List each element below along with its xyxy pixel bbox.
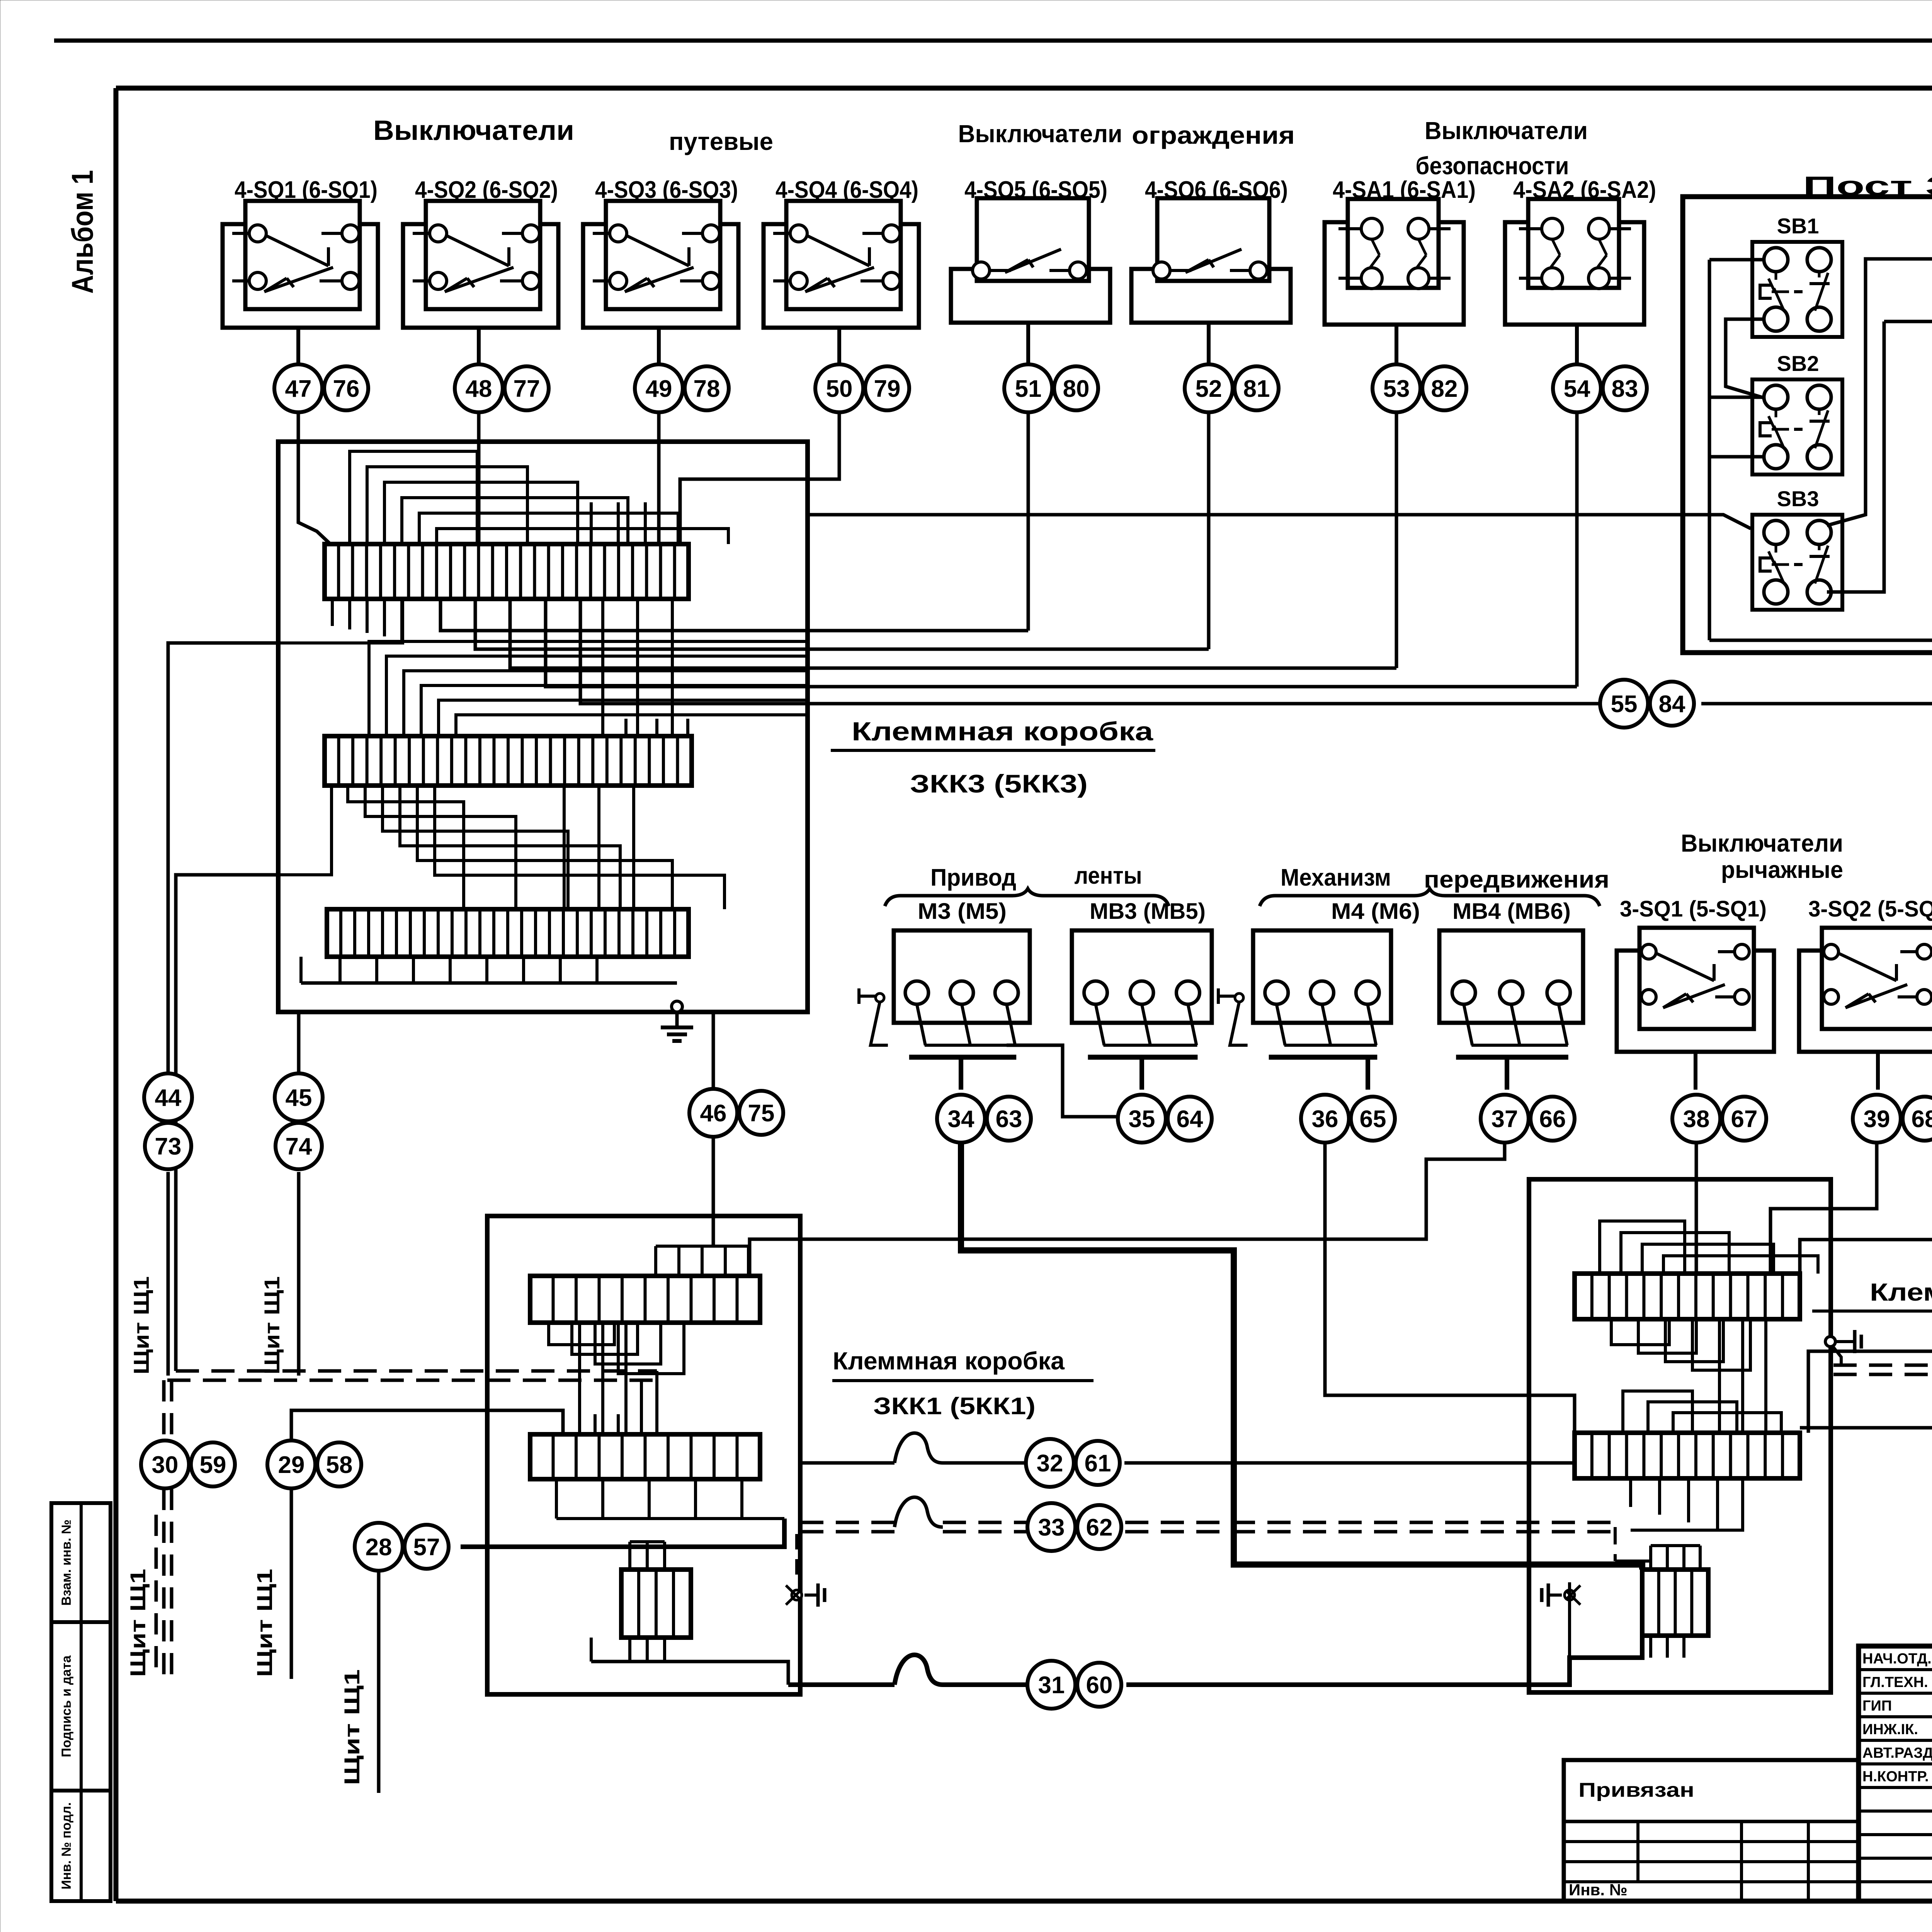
wire stem 4-SQ6 [1207, 323, 1211, 364]
signature names [1862, 1651, 1932, 1785]
svg-text:37: 37 [1492, 1106, 1518, 1133]
title block frame [1859, 1646, 1932, 1901]
wire stubs below ЗКК1 row C to bus [628, 1638, 631, 1662]
wire links between ЗКК2 rows D and E [1718, 1319, 1721, 1433]
node circle 73 [145, 1123, 191, 1169]
node circle 49 [635, 364, 683, 412]
node circle 54 [1553, 364, 1601, 412]
motor leads МВ4 [1464, 1004, 1472, 1045]
svg-text:Привод: Привод [930, 864, 1016, 891]
wire below node 73 to Щит Щ1 [167, 1172, 170, 1376]
wire to node 44 from ЗКК3 left edge [168, 643, 278, 1072]
svg-text:Выключатели: Выключатели [958, 120, 1122, 148]
svg-text:МВ3 (МВ5): МВ3 (МВ5) [1090, 899, 1206, 924]
wire ground bus of ЗКК3 [301, 981, 677, 985]
node circle 84 [1650, 682, 1694, 726]
node circle 35 [1118, 1095, 1166, 1143]
wire from node 38 into ЗКК2 row D [1695, 1144, 1698, 1274]
wire stem 4-SQ5 [1026, 323, 1030, 364]
motor leads М3 [917, 1004, 925, 1045]
svg-text:44: 44 [155, 1085, 182, 1111]
margin stamp Взам. инв. № [51, 1503, 111, 1622]
svg-text:Инв. № подл.: Инв. № подл. [59, 1802, 74, 1889]
node circle 39 [1853, 1095, 1901, 1143]
safety switch 4-SA2 [1505, 222, 1644, 325]
node circle 83 [1603, 366, 1647, 410]
wire SA bottom-left lead [1884, 320, 1932, 323]
lever switch 3-SQ1 [1617, 951, 1774, 1052]
node circle 61 [1076, 1441, 1120, 1485]
wire stubs above ЗКК1 row C [628, 1542, 631, 1570]
wire left bus of ЗПУ [1708, 260, 1711, 640]
node circle 74 [276, 1123, 322, 1169]
svg-text:АВТ.РАЗД.: АВТ.РАЗД. [1862, 1745, 1932, 1761]
svg-text:ГЛ.ТЕХН.: ГЛ.ТЕХН. [1862, 1674, 1928, 1690]
wire stem 3-SQ1 [1694, 1052, 1697, 1090]
wire ЗКК3 top feed to SB3 of ЗПУ [808, 442, 1751, 529]
dashed cable below node 30 Щит Щ1 [155, 1515, 158, 1679]
svg-text:51: 51 [1015, 376, 1042, 402]
brace under Механизм передвижения [1260, 889, 1600, 906]
svg-text:передвижения: передвижения [1424, 866, 1609, 893]
svg-text:ЗКК3 (5КК3): ЗКК3 (5КК3) [910, 769, 1088, 798]
node circle 37 [1481, 1095, 1529, 1143]
svg-text:57: 57 [413, 1534, 440, 1561]
svg-text:Привязан: Привязан [1578, 1779, 1694, 1801]
wire stem 3-SQ2 [1876, 1052, 1880, 1090]
wire bottom bus of ЗПУ [1709, 639, 1932, 642]
svg-text:ограждения: ограждения [1132, 121, 1295, 149]
svg-text:МВ4 (МВ6): МВ4 (МВ6) [1452, 899, 1571, 924]
svg-text:73: 73 [155, 1133, 182, 1160]
wire stubs above ЗКК1 row A [654, 1246, 657, 1276]
svg-text:28: 28 [366, 1534, 392, 1561]
wire bus below ЗКК1 row B [555, 1479, 558, 1519]
node circle 55 [1600, 680, 1648, 728]
motor М4 [1253, 930, 1391, 1023]
terminal strip ЗКК2 row D [1575, 1274, 1800, 1319]
svg-text:49: 49 [646, 376, 672, 402]
wire from node 54 down to cross run [1575, 412, 1579, 687]
svg-text:50: 50 [826, 376, 853, 402]
svg-text:53: 53 [1383, 376, 1410, 402]
terminal strip ЗКК1 row C [621, 1570, 691, 1638]
node circle 36 [1301, 1095, 1349, 1143]
svg-text:Подпись и дата: Подпись и дата [59, 1655, 74, 1757]
wire stem 4-SQ1 [296, 328, 300, 364]
node circle 57 [405, 1525, 449, 1569]
chassis ground at ЗКК2 [1825, 1337, 1835, 1347]
wire SB1 top-left to bus [1709, 258, 1765, 262]
terminal clamp of М4 [1217, 988, 1220, 1004]
svg-text:32: 32 [1037, 1450, 1063, 1477]
limit switch 4-SQ1 [223, 224, 378, 328]
terminal clamp of М3 [857, 988, 861, 1004]
node circle 79 [865, 366, 909, 410]
terminal strip ЗКК3 row 2 [325, 736, 692, 786]
svg-text:Клеммная коробка: Клеммная коробка [833, 1347, 1065, 1375]
wire М3 bus to node 35 [1007, 1045, 1117, 1117]
node circle 66 [1531, 1097, 1575, 1141]
wire run to node 51 [440, 599, 1028, 631]
chassis ground elbow at ЗКК2 [1832, 1346, 1841, 1365]
wire from node 53 down to cross run [1395, 412, 1398, 668]
svg-text:63: 63 [996, 1106, 1022, 1133]
svg-text:80: 80 [1063, 376, 1090, 402]
wire bottom bus ЗКК1 to output 31 [591, 1662, 788, 1685]
leader line ЗКК2 label [1812, 1310, 1870, 1313]
wire bundle below ЗКК2 row E [1629, 1478, 1632, 1507]
svg-text:безопасности: безопасности [1416, 152, 1569, 180]
svg-text:34: 34 [948, 1106, 975, 1133]
margin stamp Подпись и дата [51, 1622, 111, 1791]
svg-text:81: 81 [1243, 376, 1270, 402]
wire from node 37 into ЗКК1 row A [750, 1144, 1505, 1276]
node circle 45 [275, 1073, 323, 1121]
node circle 28 [355, 1523, 403, 1571]
safety switch 4-SA1 [1325, 222, 1464, 325]
node circle 63 [987, 1097, 1031, 1141]
thick cable М3 to ЗКК2 row C [961, 1144, 1642, 1570]
wire from node 49 down to ЗКК3 [657, 412, 661, 544]
wire stem 4-SQ4 [837, 328, 841, 364]
lever switch 3-SQ2 [1799, 951, 1932, 1052]
svg-text:ленты: ленты [1075, 862, 1142, 889]
svg-text:ГИП: ГИП [1862, 1698, 1892, 1714]
svg-text:ИНЖ.IК.: ИНЖ.IК. [1862, 1721, 1918, 1738]
node circle 58 [317, 1442, 361, 1486]
node circle 80 [1054, 366, 1098, 410]
svg-text:SB3: SB3 [1777, 486, 1819, 511]
wire stubs row 2 [624, 719, 628, 736]
node circle 47 [274, 364, 322, 412]
svg-text:Щит Щ1: Щит Щ1 [126, 1569, 150, 1677]
svg-text:НАЧ.ОТД.: НАЧ.ОТД. [1862, 1651, 1932, 1667]
wire run 55-84 to ЗПУ ground bus [580, 599, 1600, 704]
wire stem 4-SQ3 [657, 328, 661, 364]
node circle 75 [739, 1091, 783, 1135]
wire from ЗКК3 bottom to node 45 [297, 1012, 301, 1073]
wire stem 4-SA2 [1575, 325, 1579, 364]
node circle 29 [267, 1440, 315, 1488]
margin stamp Инв. № подл. [51, 1791, 111, 1901]
plug connector X2 [1565, 1590, 1575, 1600]
wire bundle above ЗКК2 row E [1623, 1391, 1692, 1433]
wire stubs above ЗКК1 row B [594, 1414, 597, 1434]
svg-text:48: 48 [466, 376, 492, 402]
svg-text:54: 54 [1564, 376, 1590, 402]
node circle 46 [689, 1089, 737, 1137]
limit switch 4-SQ4 [764, 224, 919, 328]
wire from node 50 down to ЗКК3 [680, 412, 839, 544]
wire bundle below ЗКК3 row 1 [331, 599, 334, 626]
wire bundle below ЗКК3 row 3 to ground bus [338, 957, 342, 983]
svg-text:36: 36 [1312, 1106, 1338, 1133]
svg-text:SB2: SB2 [1777, 351, 1819, 376]
wire below node 29 Щит Щ1 [290, 1489, 293, 1679]
wire run to node 53 [510, 599, 1396, 668]
terminal box ЗКК1 enclosure [487, 1216, 800, 1694]
node circle 67 [1722, 1097, 1766, 1141]
wire SB3 top-right riser to SA [1827, 259, 1932, 526]
wire stubs above ЗКК2 row F [1649, 1546, 1652, 1570]
svg-text:76: 76 [333, 376, 360, 402]
svg-text:Выключатели: Выключатели [1681, 829, 1843, 857]
svg-text:Клеммная коробка: Клеммная коробка [1870, 1278, 1932, 1306]
svg-text:ЗКК1 (5КК1): ЗКК1 (5КК1) [873, 1393, 1036, 1420]
wire stem МВ4 [1505, 1057, 1509, 1090]
wire stem МВ3 [1139, 1057, 1144, 1090]
node circle 68 [1903, 1097, 1932, 1141]
wire collector below ЗКК3 row 1 to left edge [278, 599, 403, 643]
wire run 32-61 from ЗКК1 to ЗКК2 [800, 1461, 895, 1465]
svg-text:46: 46 [700, 1100, 727, 1127]
node circle 81 [1235, 366, 1279, 410]
node circle 33 [1027, 1503, 1075, 1551]
wire links between ЗКК1 rows A and B [578, 1323, 581, 1434]
limit switch 4-SQ3 [583, 224, 738, 328]
svg-text:77: 77 [514, 376, 540, 402]
dashed cable into ЗКК1 row B [176, 1369, 657, 1373]
wire from node 29 into ЗКК1 row B [291, 1410, 563, 1439]
svg-text:Альбом 1: Альбом 1 [65, 170, 99, 294]
control post box Пост ЗПУ [1683, 197, 1932, 653]
svg-text:путевые: путевые [669, 128, 773, 155]
wire stem М4 [1366, 1057, 1370, 1090]
wire from node 51 down to cross run [1027, 412, 1030, 631]
wire run 43-72 from ЗКК2 to signal post [1800, 1141, 1932, 1428]
wire run 31-60 from ЗКК1 to ЗКК2 [788, 1682, 895, 1687]
wire from node 48 down to ЗКК3 [477, 412, 481, 544]
node circle 51 [1004, 364, 1052, 412]
dashed run 33-62 from ЗКК1 to ЗКК2 [800, 1521, 895, 1524]
svg-text:Выключатели: Выключатели [373, 115, 574, 146]
svg-text:52: 52 [1196, 376, 1222, 402]
svg-text:30: 30 [152, 1452, 179, 1478]
terminal strip ЗКК2 row F [1642, 1570, 1708, 1636]
svg-text:Выключатели: Выключатели [1425, 117, 1588, 145]
svg-text:SB1: SB1 [1777, 214, 1819, 238]
svg-text:59: 59 [200, 1452, 226, 1478]
node circle 53 [1372, 364, 1420, 412]
wire bundle below ЗКК2 row D [1611, 1319, 1669, 1345]
svg-text:82: 82 [1431, 376, 1458, 402]
plug connector X1 [792, 1590, 802, 1600]
svg-text:39: 39 [1864, 1106, 1890, 1133]
terminal strip ЗКК3 row 3 [327, 909, 689, 957]
wire SB1 bottom-left jog to SB2 [1726, 319, 1765, 398]
svg-text:3-SQ2 (5-SQ2): 3-SQ2 (5-SQ2) [1808, 896, 1932, 922]
svg-text:Механизм: Механизм [1281, 864, 1391, 891]
node circle 62 [1077, 1505, 1121, 1549]
wire below node 28 Щит Щ1 [377, 1571, 381, 1793]
node circle 50 [815, 364, 863, 412]
motor МВ4 [1439, 930, 1583, 1023]
node circle 82 [1422, 366, 1466, 410]
wire from node 57 into ЗКК1 [461, 1519, 784, 1547]
svg-text:58: 58 [326, 1452, 353, 1478]
svg-text:61: 61 [1085, 1450, 1111, 1477]
wire collector below ЗКК3 row 2 to left edge [278, 786, 332, 875]
svg-text:65: 65 [1360, 1106, 1386, 1133]
svg-text:31: 31 [1038, 1672, 1065, 1699]
svg-text:3-SQ1 (5-SQ1): 3-SQ1 (5-SQ1) [1620, 896, 1767, 922]
node circle 76 [324, 366, 368, 410]
wire from node 47 down to terminal box ЗКК3 [298, 412, 330, 544]
terminal strip ЗКК3 row 1 [325, 544, 689, 599]
wire below node 74 to Щит Щ1 [297, 1172, 301, 1376]
svg-text:68: 68 [1912, 1106, 1932, 1133]
wire links between ЗКК3 rows 1 and 2 [601, 599, 604, 736]
svg-text:55: 55 [1611, 691, 1638, 718]
svg-text:Клеммная коробка: Клеммная коробка [852, 717, 1153, 746]
svg-text:Инв. №: Инв. № [1569, 1881, 1628, 1899]
svg-text:78: 78 [694, 376, 720, 402]
wire from node 39 into ЗКК2 row D [1770, 1144, 1877, 1274]
node circle 30 [141, 1440, 189, 1488]
node circle 48 [455, 364, 503, 412]
terminal box ЗКК2 enclosure [1529, 1179, 1831, 1692]
svg-text:Н.КОНТР.: Н.КОНТР. [1862, 1769, 1929, 1785]
svg-text:83: 83 [1612, 376, 1638, 402]
dashed run 42-71 from ЗКК2 to speed sensor [1833, 1364, 1932, 1367]
svg-text:Взам. инв. №: Взам. инв. № [59, 1519, 74, 1605]
node circle 34 [937, 1095, 985, 1143]
wire slack loop [895, 1497, 943, 1527]
svg-text:Щит Щ1: Щит Щ1 [129, 1276, 153, 1374]
wire slack loop [895, 1433, 943, 1463]
node circle 44 [144, 1073, 192, 1121]
node circle 59 [191, 1442, 235, 1486]
limit switch 4-SQ2 [403, 224, 558, 328]
wire SB3 bottom-right to SA bottom bus [1827, 321, 1884, 592]
wire stem М3 [959, 1057, 963, 1090]
svg-text:45: 45 [286, 1085, 312, 1111]
wire bundle above ЗКК3 row 1 [350, 451, 477, 544]
ground of ЗКК3 [672, 1001, 682, 1012]
wire SB2 left to bus [1709, 396, 1765, 399]
node circle 78 [685, 366, 729, 410]
terminal strip ЗКК2 row E [1575, 1433, 1800, 1478]
node circle 52 [1185, 364, 1233, 412]
svg-text:84: 84 [1659, 691, 1685, 718]
wire run to node 52 [475, 599, 1209, 649]
svg-text:35: 35 [1129, 1106, 1155, 1133]
wire SB2 bottom-left to bus [1709, 455, 1765, 459]
svg-text:75: 75 [748, 1100, 775, 1127]
terminal strip ЗКК1 row B [530, 1434, 760, 1479]
node circle 38 [1672, 1095, 1720, 1143]
svg-text:62: 62 [1086, 1514, 1113, 1541]
node circle 64 [1168, 1097, 1212, 1141]
wire run to node 54 [546, 599, 1577, 687]
svg-text:38: 38 [1683, 1106, 1710, 1133]
wire from node 40 into ЗКК2 row D [1800, 1144, 1932, 1274]
svg-text:М4 (М6): М4 (М6) [1331, 899, 1420, 924]
wire bundle below ЗКК1 row A [549, 1323, 614, 1345]
wire stubs below ЗКК2 row F [1649, 1636, 1652, 1658]
wire slack loop [895, 1655, 943, 1685]
svg-text:М3 (М5): М3 (М5) [918, 899, 1007, 924]
sheet outer border top [54, 39, 1932, 43]
svg-text:66: 66 [1539, 1106, 1566, 1133]
wire bundle above ЗКК2 row D [1600, 1221, 1685, 1274]
plug connector on ЗКК1 side [795, 1534, 798, 1582]
svg-text:64: 64 [1177, 1106, 1203, 1133]
wire stem 4-SA1 [1395, 325, 1398, 364]
svg-text:Щит Щ1: Щит Щ1 [340, 1669, 364, 1785]
node circle 32 [1026, 1439, 1074, 1487]
motor leads МВ3 [1096, 1004, 1104, 1045]
svg-text:Щит Щ1: Щит Щ1 [260, 1276, 284, 1374]
guard switch 4-SQ5 [951, 269, 1110, 323]
node circle 65 [1351, 1097, 1395, 1141]
wire from node 41 into ЗКК2 row E [1808, 1141, 1932, 1433]
brace under Привод ленты [885, 889, 1169, 906]
node circle 60 [1077, 1663, 1121, 1707]
wire stem 4-SQ2 [477, 328, 481, 364]
terminal strip ЗКК1 row A [530, 1276, 760, 1323]
svg-text:79: 79 [874, 376, 901, 402]
motor leads М4 [1277, 1004, 1285, 1045]
wire stubs above ЗКК3 row 1 [590, 502, 593, 544]
svg-text:74: 74 [286, 1133, 312, 1160]
title table rows [1859, 1670, 1932, 1882]
bound stamp box Привязан [1564, 1760, 1859, 1901]
wire from node 52 down to cross run [1207, 412, 1211, 649]
svg-text:67: 67 [1731, 1106, 1758, 1133]
wire bundle above ЗКК3 row 2 [369, 641, 808, 736]
svg-text:рычажные: рычажные [1721, 857, 1843, 883]
node circle 31 [1027, 1661, 1075, 1709]
wire links between ЗКК3 rows 2 and 3 [563, 786, 566, 909]
svg-text:60: 60 [1086, 1672, 1113, 1699]
guard switch 4-SQ6 [1131, 269, 1291, 323]
wire bundle below ЗКК3 row 2 [348, 786, 464, 909]
svg-text:Щит Щ1: Щит Щ1 [252, 1569, 277, 1677]
wire М4 to ЗКК2 row B [1325, 1144, 1575, 1434]
wire to dashed cable corner from ЗКК3 left edge [176, 875, 278, 1371]
motor МВ3 [1072, 930, 1212, 1023]
svg-text:29: 29 [278, 1452, 305, 1478]
ground symbol ЗКК3 [675, 1012, 679, 1027]
node circle 77 [505, 366, 549, 410]
dashed cable corner to node 30 [162, 1380, 166, 1440]
svg-text:33: 33 [1038, 1514, 1065, 1541]
svg-text:47: 47 [285, 376, 312, 402]
motor М3 [894, 930, 1030, 1023]
wire node 46 into ЗКК1 [712, 1012, 715, 1088]
terminal box ЗКК3 enclosure [278, 442, 808, 1012]
